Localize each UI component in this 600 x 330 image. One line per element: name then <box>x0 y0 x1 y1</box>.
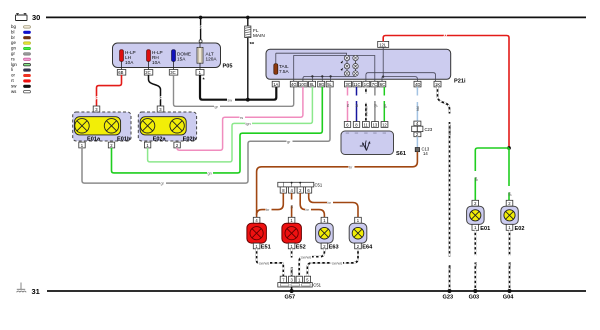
svg-text:sw/ws: sw/ws <box>364 106 368 116</box>
wire sw/ws E51 to C51 lower <box>257 249 284 276</box>
pin 11 of S61 <box>363 122 370 128</box>
svg-text:sw: sw <box>11 83 17 88</box>
svg-text:10A: 10A <box>125 60 134 65</box>
wire hbl C23 to C13 <box>416 137 418 148</box>
svg-text:ge: ge <box>11 40 16 45</box>
wire rt from 12L to right drop <box>383 36 509 149</box>
diode network in P21i <box>341 55 359 76</box>
svg-text:sw/ws: sw/ws <box>301 255 311 259</box>
pin 8 of S61 <box>353 122 359 128</box>
svg-text:br: br <box>11 35 15 40</box>
fusible link FL MAIN <box>245 26 265 48</box>
svg-text:8L: 8L <box>310 82 315 87</box>
lamp E51 <box>247 217 271 250</box>
svg-text:11: 11 <box>364 122 369 127</box>
svg-text:G03: G03 <box>469 295 480 301</box>
svg-text:gn: gn <box>383 104 387 108</box>
wire FL MAIN down to junction <box>247 38 249 100</box>
svg-text:sw: sw <box>448 265 452 270</box>
svg-text:ws: ws <box>508 262 512 267</box>
svg-text:sw/ws: sw/ws <box>259 262 269 266</box>
svg-text:P05: P05 <box>223 64 233 70</box>
pin 3C <box>345 81 352 87</box>
lamp E01b <box>104 119 118 133</box>
wire br C51 pin4 to E52 <box>291 193 293 217</box>
wire gr 7C to S61 <box>374 87 376 122</box>
wire sw/ws E01 to G03 <box>474 230 478 291</box>
wire rs E02 pin2 to 10G <box>177 87 303 150</box>
svg-text:120A: 120A <box>206 57 218 62</box>
svg-text:E02b: E02b <box>183 136 197 142</box>
switch symbol inside S61 <box>360 141 371 151</box>
pin 1 of P05 <box>196 70 204 76</box>
junction red/green right <box>507 146 511 150</box>
lamp E52 <box>282 217 306 250</box>
svg-text:bg: bg <box>11 24 16 29</box>
internal line 1C to 1K <box>366 73 436 82</box>
svg-text:C23: C23 <box>425 127 433 132</box>
wire rt from 6B to E01 pin3 <box>95 75 122 106</box>
svg-text:lgn: lgn <box>11 62 17 67</box>
svg-text:**: ** <box>250 42 255 48</box>
pin 4G <box>290 81 297 87</box>
wire gn junction to E02 <box>508 148 510 200</box>
pin 2 of E02 <box>174 142 180 148</box>
lamp E63 <box>316 217 339 250</box>
wire rs 3C to S61 <box>347 87 349 122</box>
svg-text:1C: 1C <box>364 82 369 87</box>
pin 3 of E01 <box>93 106 100 112</box>
svg-text:10G: 10G <box>299 82 307 87</box>
svg-text:9G: 9G <box>319 82 325 87</box>
pin 11C <box>353 81 362 87</box>
pin 3C of P05 <box>169 70 178 76</box>
lamp E01 <box>467 200 491 232</box>
pin 4D <box>414 81 421 87</box>
svg-text:ws: ws <box>11 89 17 94</box>
lamp E02a <box>140 119 154 133</box>
wire sw/ws E64 to C51 lower <box>307 249 358 276</box>
wire hbl 4D to C23 <box>416 87 418 121</box>
wire br C51 pin8 joins E51 drop <box>257 193 284 215</box>
svg-text:15A: 15A <box>177 57 186 62</box>
svg-text:E01a: E01a <box>87 136 101 142</box>
fuse F1 H-LP LH 10A <box>120 50 136 70</box>
wire gn E01 pin2 to 9G <box>112 87 323 173</box>
pin 9G <box>318 81 325 87</box>
S61 pin function marks <box>346 132 386 135</box>
svg-text:E01: E01 <box>480 226 490 232</box>
wire lgn E02 pin1 to 8L <box>148 87 313 162</box>
wire sw/ws E63 to C51 lower <box>299 249 324 276</box>
lamp E02b <box>170 119 184 133</box>
svg-text:3C: 3C <box>170 70 175 75</box>
internal line 12L to 6C and 4D <box>382 47 384 76</box>
svg-text:E01b: E01b <box>117 136 131 142</box>
svg-text:1K: 1K <box>435 82 440 87</box>
svg-text:2C: 2C <box>145 70 150 75</box>
svg-text:sw/ws: sw/ws <box>448 125 452 135</box>
wire gn junction to E01 <box>475 148 509 200</box>
svg-text:C51: C51 <box>313 283 321 288</box>
svg-text:sw: sw <box>228 98 233 102</box>
pin 1 of E01 <box>79 142 85 148</box>
ground symbol left <box>17 283 27 293</box>
svg-text:S61: S61 <box>396 151 406 157</box>
wire br C51 pin6 to E64 <box>309 193 358 217</box>
svg-text:12L: 12L <box>379 42 387 47</box>
bus 30 rail wire <box>46 16 586 18</box>
wire bl 11C to S61 <box>356 87 358 122</box>
svg-text:P21i: P21i <box>454 79 466 85</box>
pin 10G <box>299 81 308 87</box>
svg-text:rs: rs <box>240 116 243 120</box>
pin 13 of S61 <box>372 122 379 128</box>
pin 6C <box>379 81 386 87</box>
junction on rail above ALT <box>199 16 203 20</box>
pin 6 of S61 <box>344 122 350 128</box>
svg-text:E63: E63 <box>329 244 339 250</box>
svg-text:E52: E52 <box>296 244 306 250</box>
svg-text:rs: rs <box>346 104 350 107</box>
svg-text:4D: 4D <box>415 82 420 87</box>
battery symbol <box>16 14 28 21</box>
pin 1A <box>272 81 279 87</box>
pin 2C of P05 <box>144 70 153 76</box>
wire gn 6C to S61 <box>383 87 385 122</box>
svg-text:gn: gn <box>474 177 478 181</box>
svg-text:E64: E64 <box>362 244 373 250</box>
wire FL MAIN from rail <box>247 17 249 26</box>
svg-text:hbl: hbl <box>416 106 420 111</box>
svg-text:bl: bl <box>11 29 14 34</box>
pin 3 of E02 <box>157 106 164 112</box>
svg-text:30: 30 <box>32 13 40 22</box>
pin 6B of P05 <box>117 70 126 76</box>
svg-text:E02a: E02a <box>153 136 167 142</box>
svg-text:C51: C51 <box>315 183 323 188</box>
connector C51 lower <box>278 276 322 287</box>
internal bus to lamp pins <box>303 76 356 81</box>
pin 7C <box>371 81 378 87</box>
svg-text:1A: 1A <box>273 82 278 87</box>
junction G57 <box>290 289 294 293</box>
wire br C13 to E51 and C51 <box>257 152 418 218</box>
svg-text:14: 14 <box>423 151 428 156</box>
svg-text:li: li <box>11 67 13 72</box>
wire sw/ws E52 to C51 lower <box>290 249 294 278</box>
svg-text:G57: G57 <box>285 295 296 301</box>
internal sub-box <box>294 56 375 82</box>
fuse box P05 <box>113 43 221 68</box>
svg-text:4G: 4G <box>291 82 297 87</box>
splice C13 pin 14 <box>415 148 419 152</box>
wire colour legend <box>11 24 17 94</box>
svg-text:13: 13 <box>373 122 378 127</box>
pin 5L <box>326 81 333 87</box>
svg-text:G23: G23 <box>443 295 454 301</box>
pin 1C <box>363 81 370 87</box>
svg-text:gr: gr <box>11 51 15 56</box>
internal line from TAIL to diodes <box>276 53 347 55</box>
pin 12 of S61 <box>381 122 388 128</box>
pin 1 of E02 <box>144 142 150 148</box>
svg-text:gn: gn <box>508 192 512 196</box>
svg-text:6C: 6C <box>380 82 385 87</box>
svg-text:or: or <box>11 73 15 78</box>
headlamp assembly E01a/E01b <box>73 112 131 141</box>
connector C51 upper <box>278 182 323 193</box>
wire br C51 pin2 to E63 <box>300 193 324 217</box>
wire from rail to ALT terminal <box>199 17 202 42</box>
lamp E02 <box>501 200 525 232</box>
pin 1K <box>434 81 441 87</box>
svg-text:MAIN: MAIN <box>253 33 265 38</box>
lamp E64 <box>349 217 373 250</box>
svg-text:E51: E51 <box>261 244 271 250</box>
wire sw from 2C to E02 pin3 <box>149 75 163 106</box>
svg-text:gn: gn <box>11 46 16 51</box>
connector C23 <box>412 121 433 137</box>
svg-text:E02: E02 <box>515 226 525 232</box>
svg-text:7.5A: 7.5A <box>279 69 290 74</box>
junction G03 <box>473 289 477 293</box>
fuse F4 ALT 120A <box>197 43 217 70</box>
svg-text:10A: 10A <box>152 60 161 65</box>
fuse F3 DOME 15A <box>172 50 191 70</box>
svg-text:3C: 3C <box>346 82 351 87</box>
connector 12L on top of P21i <box>378 41 389 47</box>
pin 8L <box>309 81 316 87</box>
lamp E01a <box>75 119 89 133</box>
fuse TAIL 7.5A inside P21i <box>274 53 290 74</box>
svg-text:bl: bl <box>355 104 359 107</box>
bus 31 rail wire <box>47 290 586 292</box>
pin 2 of E01 <box>108 142 114 148</box>
svg-text:6B: 6B <box>118 70 123 75</box>
svg-text:11C: 11C <box>353 82 360 87</box>
wire sw/ws 1K to G23 <box>438 87 450 291</box>
switch S61 <box>341 131 394 155</box>
wire sw C51 to ground G57 <box>291 287 293 291</box>
svg-text:7C: 7C <box>372 82 377 87</box>
junction G04 <box>508 289 512 293</box>
fuse F2 H-LP RH 10A <box>147 50 163 70</box>
svg-text:12: 12 <box>382 122 387 127</box>
wire gr from 3C P05 to 4G P21i <box>174 75 294 106</box>
connector box P21i <box>266 49 451 79</box>
svg-text:5L: 5L <box>327 82 332 87</box>
wire sw/ws E02 to G04 <box>508 230 512 291</box>
svg-text:G04: G04 <box>503 295 514 301</box>
svg-text:31: 31 <box>32 287 40 296</box>
wire label gaps on S61 feed wires <box>346 94 451 266</box>
svg-text:lgn: lgn <box>246 122 251 126</box>
junction G23 <box>448 289 452 293</box>
headlamp assembly E02a/E02b <box>138 112 196 141</box>
wire gr E01 pin1 to 5L <box>82 87 330 183</box>
svg-text:sw/ws: sw/ws <box>290 267 294 277</box>
svg-text:ws: ws <box>474 262 478 267</box>
wire sw/ws 1C to S61 <box>365 87 367 122</box>
svg-text:sw/ws: sw/ws <box>332 262 342 266</box>
wire labels on lines <box>160 98 355 266</box>
junction ALT/FL wire <box>246 98 250 102</box>
junction on rail above FL MAIN <box>246 16 250 20</box>
svg-text:gn: gn <box>208 172 212 176</box>
wire sw thick from ALT pin to 1A P21i <box>200 75 276 100</box>
